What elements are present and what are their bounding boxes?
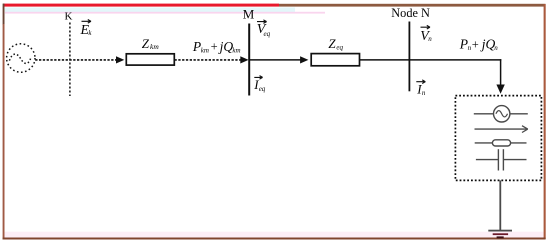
arrowhead into M: [240, 56, 248, 63]
svg-text:M: M: [243, 7, 255, 22]
label In vector: [416, 80, 426, 97]
label Pn + jQn: [459, 37, 499, 53]
load capacitor plates: [497, 149, 499, 170]
impedance Zeq box: [311, 54, 359, 66]
svg-text:Node N: Node N: [391, 6, 430, 20]
load AC source circle: [494, 106, 510, 122]
svg-text:+: +: [472, 37, 479, 51]
ground symbol line 1: [488, 230, 512, 232]
AC source G1 sine wave: [9, 54, 31, 63]
arrowhead into Zkm: [116, 56, 124, 63]
svg-text:km: km: [232, 47, 240, 55]
svg-text:km: km: [201, 47, 209, 55]
label Veq vector: [257, 20, 271, 38]
wire solid M to Zeq: [249, 59, 300, 61]
load AC source wire: [474, 113, 528, 115]
svg-text:eq: eq: [264, 30, 271, 38]
svg-text:P: P: [459, 37, 468, 52]
svg-text:+: +: [211, 40, 218, 54]
svg-text:n: n: [422, 89, 426, 97]
node K dashed bus line: [69, 23, 71, 97]
svg-text:Z: Z: [328, 36, 336, 51]
load capacitor row wires: [476, 159, 498, 161]
impedance Zkm box: [126, 54, 174, 65]
svg-text:n: n: [494, 44, 498, 52]
wire dashed from Zkm to M: [175, 59, 241, 61]
label Zeq: [328, 36, 343, 51]
svg-text:P: P: [192, 39, 201, 54]
label Zkm: [142, 36, 160, 51]
svg-text:eq: eq: [259, 85, 266, 93]
load equivalent dashed box: [455, 96, 541, 181]
ground symbol line 2: [493, 233, 508, 235]
svg-text:Z: Z: [142, 36, 150, 51]
wire corner down into load box: [500, 59, 502, 85]
svg-text:jQ: jQ: [218, 39, 234, 54]
svg-text:jQ: jQ: [480, 37, 496, 52]
svg-text:km: km: [150, 42, 159, 51]
load resistor (pill) row: [475, 142, 527, 144]
label Vn vector: [420, 25, 432, 44]
wire solid Zeq to N and beyond: [360, 59, 502, 61]
AC source G1 circle: [7, 44, 35, 72]
svg-text:eq: eq: [336, 44, 343, 52]
wire load box to ground: [499, 180, 501, 230]
arrowhead down into load box: [496, 85, 504, 94]
svg-text:n: n: [428, 35, 432, 43]
ground symbol line 3: [497, 236, 504, 238]
node M bus line: [248, 24, 250, 96]
svg-text:K: K: [65, 10, 73, 22]
load arrow row: [475, 128, 527, 130]
label E_k vector: [80, 20, 93, 39]
label Pkm + jQkm: [192, 39, 241, 55]
node N bus line: [408, 22, 410, 92]
arrowhead into Zeq: [300, 56, 308, 63]
wire dashed from source to Zkm: [35, 59, 116, 61]
load AC source sine: [496, 111, 508, 117]
label Ieq vector: [253, 76, 266, 94]
